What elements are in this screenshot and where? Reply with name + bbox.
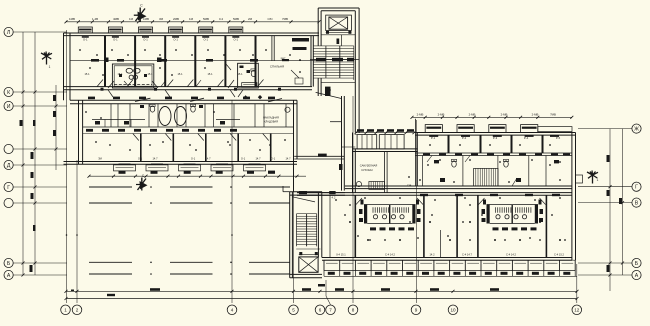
axis circle left Л y32 [4, 27, 13, 36]
svg-text:9: 9 [415, 308, 418, 313]
axis circle left Б y263 [4, 258, 13, 267]
svg-text:КУХОНЫ: КУХОНЫ [361, 168, 373, 172]
bottom tower outer walls [289, 192, 291, 278]
svg-text:4: 4 [231, 308, 234, 313]
mid band dim line [89, 175, 306, 177]
svg-text:1: 1 [49, 65, 51, 69]
mid band mid numbers [86, 129, 93, 132]
bottom band fixture dots [349, 221, 351, 223]
svg-text:7МВ: 7МВ [550, 112, 556, 116]
svg-text:14.7: 14.7 [255, 156, 261, 160]
mid band window boxes [114, 164, 266, 171]
svg-text:О-1: О-1 [113, 38, 118, 42]
svg-text:КЛАДОВАЯ: КЛАДОВАЯ [264, 120, 278, 124]
top wing bytovki labels [292, 38, 309, 42]
svg-text:С-4 14.2: С-4 14.2 [385, 253, 396, 257]
axis circle right Г y186.7 [632, 182, 641, 191]
axis line 1 [66, 30, 68, 303]
svg-text:1: 1 [64, 308, 67, 313]
svg-text:В: В [635, 200, 639, 206]
svg-text:4.2: 4.2 [332, 196, 336, 200]
svg-text:Б: Б [635, 261, 639, 267]
axis circle left blank y203 [4, 198, 13, 207]
svg-text:О-1: О-1 [271, 156, 276, 160]
right wing left dim line [355, 132, 415, 134]
svg-text:Ж: Ж [634, 126, 639, 132]
svg-text:САНУЗЕЛНАЯ: САНУЗЕЛНАЯ [360, 163, 378, 167]
svg-text:2-МВ: 2-МВ [501, 112, 508, 116]
svg-text:6: 6 [319, 308, 322, 313]
corridor door leaves [135, 98, 150, 101]
svg-text:О-1: О-1 [83, 38, 88, 42]
svg-text:0.4: 0.4 [219, 17, 223, 21]
top wing area labels [84, 72, 243, 76]
svg-text:2-МВ: 2-МВ [532, 112, 539, 116]
top wing top wall [64, 32, 320, 34]
svg-text:14.7: 14.7 [285, 156, 291, 160]
axis line 5 [293, 170, 295, 303]
svg-text:1М: 1М [189, 17, 194, 21]
top wing left wall [63, 33, 65, 90]
mid band bath row [110, 104, 112, 127]
svg-text:О-1: О-1 [203, 38, 208, 42]
axis circle bottom 6 [315, 305, 325, 315]
svg-text:Г: Г [635, 185, 638, 191]
left section window bays [357, 135, 377, 149]
svg-text:8: 8 [352, 308, 355, 313]
corridor door jambs [101, 88, 104, 91]
north arrow top [134, 14, 140, 16]
svg-text:3М: 3М [98, 156, 102, 160]
axis circle bottom 2 [72, 305, 82, 315]
bottom tower elevator [299, 257, 318, 272]
palm tree left [41, 52, 52, 65]
right wing right wall [571, 133, 573, 261]
axis circle right В y202.6 [632, 198, 641, 207]
top wing bath cluster 1 [112, 64, 153, 88]
svg-text:1МВ: 1МВ [69, 17, 75, 21]
top wing bedroom right wall [310, 36, 312, 87]
right wing upper room dividers [414, 119, 416, 186]
svg-text:СЮ: СЮ [267, 17, 272, 21]
svg-text:5МВ: 5МВ [203, 17, 209, 21]
open area dash row A [89, 273, 132, 275]
tower shaft lobby [321, 34, 355, 36]
svg-text:2-МВ: 2-МВ [438, 112, 445, 116]
axis line 2 [76, 160, 78, 303]
axis line 9 [416, 120, 418, 303]
top wing room door leaves [97, 80, 103, 87]
svg-text:С-4 14.2: С-4 14.2 [506, 253, 517, 257]
interior dots [79, 49, 81, 51]
right wing radiators [429, 135, 559, 137]
svg-text:15.1: 15.1 [237, 72, 243, 76]
bottom band bath cluster 2 [487, 205, 490, 224]
svg-text:1МВ: 1МВ [143, 17, 149, 21]
svg-text:3М: 3М [159, 17, 164, 21]
left dim line a [22, 32, 24, 275]
svg-text:С-4 14.7: С-4 14.7 [462, 253, 473, 257]
tower stair dim line [310, 59, 359, 61]
left dim text marks [31, 152, 34, 159]
svg-text:12: 12 [574, 308, 580, 313]
axis circle left А y275 [4, 270, 13, 279]
axis circle bottom 5 [289, 305, 299, 315]
axis circle right А y275 [632, 270, 641, 279]
axis circle bottom 10 [448, 305, 458, 315]
svg-text:0-4 15.1: 0-4 15.1 [336, 253, 346, 257]
svg-text:2: 2 [76, 308, 79, 313]
bottom dim line 2 [66, 298, 577, 300]
top wing radiators [82, 36, 240, 38]
right dim text marks [607, 155, 610, 162]
svg-text:15.1: 15.1 [207, 72, 213, 76]
bottom band window boxes [324, 259, 576, 261]
left dim line b [34, 32, 36, 275]
top wing bottom wall [64, 86, 313, 88]
svg-text:Л: Л [7, 30, 10, 36]
svg-text:1М: 1М [129, 17, 134, 21]
north arrow bottom [136, 184, 142, 186]
svg-text:Е: Е [141, 178, 143, 182]
axis circle bottom 4 [227, 305, 237, 315]
axis circle bottom 1 [61, 305, 71, 315]
svg-text:Б: Б [7, 261, 11, 267]
bottom tower ramp line [292, 197, 315, 202]
right wing left wall [352, 133, 354, 193]
bottom band bottom wall [322, 257, 572, 259]
mid band top wall [70, 99, 297, 101]
svg-text:СПАЛЬНЯ: СПАЛЬНЯ [270, 65, 284, 69]
top wing bath cluster 2 [238, 63, 259, 88]
mid band left wall [78, 100, 80, 164]
axis 7 leader [325, 280, 327, 296]
top wing door swings [108, 90, 113, 97]
open area dash row B [89, 261, 132, 263]
right wing top dim line [412, 116, 572, 118]
axis line 4 [231, 100, 233, 303]
open area col dots [150, 186, 152, 188]
axis circle right Б y263 [632, 258, 641, 267]
svg-text:2-МВ: 2-МВ [469, 112, 476, 116]
svg-text:2-МВ: 2-МВ [417, 112, 424, 116]
bottom dim numbers [150, 288, 160, 291]
svg-text:1-4В: 1-4В [92, 17, 98, 21]
connector tick [330, 121, 342, 123]
mid band right wall [293, 100, 295, 192]
svg-text:7МВ: 7МВ [282, 17, 288, 21]
svg-text:А: А [635, 273, 639, 279]
bottom band number band [324, 275, 577, 277]
right wing mid numbers [423, 153, 430, 155]
tower outer walls [317, 8, 319, 46]
axis circle bottom 7 [326, 305, 336, 315]
svg-text:О-1: О-1 [241, 156, 246, 160]
svg-text:2М: 2М [248, 17, 253, 21]
axis circle left Г y187 [4, 182, 13, 191]
mid band sill numbers [119, 171, 126, 174]
svg-text:5МВ: 5МВ [233, 17, 239, 21]
svg-text:Д: Д [7, 163, 11, 169]
svg-text:О-1: О-1 [191, 156, 196, 160]
bottom band room dividers [354, 195, 356, 257]
svg-text:И: И [7, 104, 11, 110]
axis circle left К y92 [4, 87, 13, 96]
svg-text:7: 7 [329, 308, 332, 313]
right wing top wall [415, 132, 575, 134]
svg-text:НАКЛАДНАЯ: НАКЛАДНАЯ [263, 116, 279, 120]
axis circle bottom 9 [411, 305, 421, 315]
corridor left end walls [63, 90, 65, 100]
top wing mid line [70, 60, 319, 62]
svg-text:10: 10 [450, 308, 456, 313]
svg-text:4МВ: 4МВ [113, 17, 119, 21]
axis circle left blank y149 [4, 144, 13, 153]
top wing mid numbers [91, 59, 99, 62]
svg-text:14.2: 14.2 [429, 253, 435, 257]
svg-text:14.7: 14.7 [205, 156, 211, 160]
right wing upper fixtures [452, 161, 457, 167]
svg-text:9М7: 9М7 [281, 57, 286, 60]
svg-text:15.1: 15.1 [177, 72, 183, 76]
palm tree right [587, 171, 598, 184]
top wing balcony boxes [78, 27, 243, 33]
top wing room labels [83, 38, 238, 42]
axis line 8 [352, 96, 354, 303]
right wing upper hatch block [474, 168, 498, 186]
right wing balcony boxes [423, 125, 540, 133]
bottom dim line 1 [66, 290, 577, 292]
svg-text:О-1: О-1 [173, 38, 178, 42]
svg-text:К: К [7, 90, 10, 96]
top wing room dividers [105, 36, 256, 87]
right wing corridor walls [345, 185, 572, 187]
mid band bottom wall [64, 161, 298, 163]
right wing corridor numbers [420, 194, 428, 196]
right wall balcony stub [576, 175, 583, 183]
open area dash row V [89, 202, 132, 204]
connector door stub [325, 87, 331, 96]
axis circle bottom 8 [348, 305, 358, 315]
svg-text:Г: Г [7, 185, 10, 191]
axis circle bottom 12 [572, 305, 582, 315]
bottom tower stair treads [297, 213, 307, 215]
right wing upper-lower dividers [422, 156, 424, 187]
svg-text:А: А [7, 273, 11, 279]
svg-text:О-1: О-1 [234, 38, 239, 42]
tower elevator sill [326, 31, 352, 33]
svg-text:С-4 15.2: С-4 15.2 [554, 253, 565, 257]
open area dash row G [89, 186, 132, 188]
right dim line a [609, 129, 611, 291]
svg-text:2МВ: 2МВ [173, 17, 179, 21]
mid band room dividers [140, 134, 142, 162]
right dim line b [622, 129, 624, 275]
bottom band bath cluster 1 [364, 205, 367, 224]
svg-text:5: 5 [292, 308, 295, 313]
left dim line c [55, 85, 57, 170]
svg-text:О-1: О-1 [143, 38, 148, 42]
svg-text:15.1: 15.1 [84, 72, 90, 76]
tower landing [321, 81, 355, 83]
mid band dim numbers above [88, 97, 95, 100]
connector left wall [341, 96, 343, 191]
svg-text:12В: 12В [407, 183, 412, 187]
right wing end parapet [538, 127, 572, 132]
svg-text:14.7: 14.7 [152, 156, 158, 160]
axis circle right Ж y128.6 [632, 124, 641, 133]
axis circle left И y106 [4, 101, 13, 110]
top wing right section divider [271, 36, 273, 61]
top dim line [66, 21, 319, 23]
passage walls [297, 192, 345, 194]
axis line 12 [576, 264, 578, 303]
right wing kitchen walls [384, 152, 386, 193]
tower elevator [326, 15, 352, 30]
right wing mid wall [415, 152, 572, 154]
axis circle left Д y165 [4, 160, 13, 169]
left section facade wall [353, 148, 418, 150]
svg-text:О-1: О-1 [138, 156, 143, 160]
mid band room door leaves [133, 134, 139, 141]
svg-text:1: 1 [597, 178, 599, 182]
tower stair treads [313, 45, 326, 47]
bottom tower left stub [283, 191, 290, 193]
